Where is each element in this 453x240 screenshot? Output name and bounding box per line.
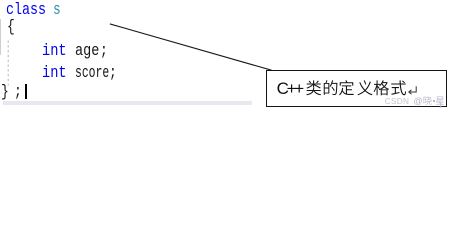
code line 3: keyword int [42, 43, 67, 59]
paragraph return mark [0, 0, 453, 111]
code line 3: semicolon [100, 43, 108, 59]
watermark @ [414, 97, 423, 106]
text cursor (caret) [25, 84, 27, 98]
watermark char 晓 [424, 96, 432, 105]
callout text char 定 [339, 80, 354, 95]
code line 5: semicolon [14, 84, 22, 100]
callout text char 式 [391, 80, 406, 95]
code line 5: close brace [1, 84, 9, 100]
indent guide (dashed) [0, 0, 453, 111]
callout text char 义 [357, 80, 372, 95]
callout text char 格 [374, 80, 389, 95]
left edge faint guide line [0, 19, 1, 55]
callout text char 的 [324, 80, 338, 95]
watermark CSDN [385, 98, 409, 106]
code line 1: type name s [53, 2, 61, 18]
bottom highlight band [3, 101, 252, 105]
leader line from code to callout box [0, 0, 453, 111]
watermark Chinese characters [0, 0, 453, 111]
code line 1: keyword class [6, 2, 46, 18]
callout text char 类 [306, 80, 321, 95]
callout text: Chinese characters [0, 0, 453, 111]
code line 4: semicolon [109, 65, 117, 81]
code line 4: keyword int [42, 65, 67, 81]
code line 2: open brace [7, 19, 15, 35]
code line 3: identifier age [75, 43, 99, 59]
callout box [266, 70, 447, 107]
watermark middot [433, 100, 435, 102]
watermark char 星 [436, 97, 444, 105]
code line 4: identifier score [75, 65, 109, 81]
callout text: C++ [277, 80, 302, 97]
watermark descender stroke of 星 [440, 103, 441, 108]
